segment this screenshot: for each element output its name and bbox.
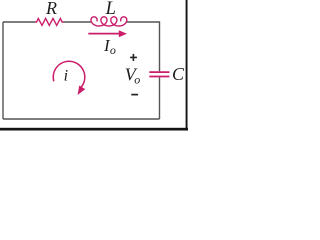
page border bottom edge highlight — [0, 129, 188, 132]
resistor R — [35, 18, 64, 25]
svg-text:R: R — [45, 0, 57, 18]
page border right — [186, 0, 188, 131]
loop arrowhead — [75, 85, 86, 96]
wire between resistor and inductor — [64, 21, 92, 23]
inductor L — [91, 17, 127, 26]
current arrow Io shaft — [88, 33, 119, 35]
wire left — [2, 22, 4, 119]
svg-text:o: o — [134, 72, 140, 86]
wire top-left segment — [3, 21, 35, 23]
plus sign — [130, 54, 137, 61]
capacitor C top plate — [149, 71, 169, 73]
svg-text:C: C — [172, 64, 185, 84]
page border right edge highlight — [186, 0, 189, 131]
wire top-right segment — [127, 22, 160, 71]
loop current arc i — [53, 61, 85, 87]
svg-text:o: o — [110, 43, 116, 57]
current arrow Io head — [119, 30, 127, 37]
svg-text:i: i — [64, 68, 68, 85]
wire right lower segment — [159, 77, 161, 119]
capacitor C bottom plate — [149, 76, 169, 78]
page border bottom — [0, 128, 188, 131]
minus sign — [131, 94, 138, 96]
svg-text:L: L — [105, 0, 116, 19]
wire bottom — [3, 118, 160, 120]
